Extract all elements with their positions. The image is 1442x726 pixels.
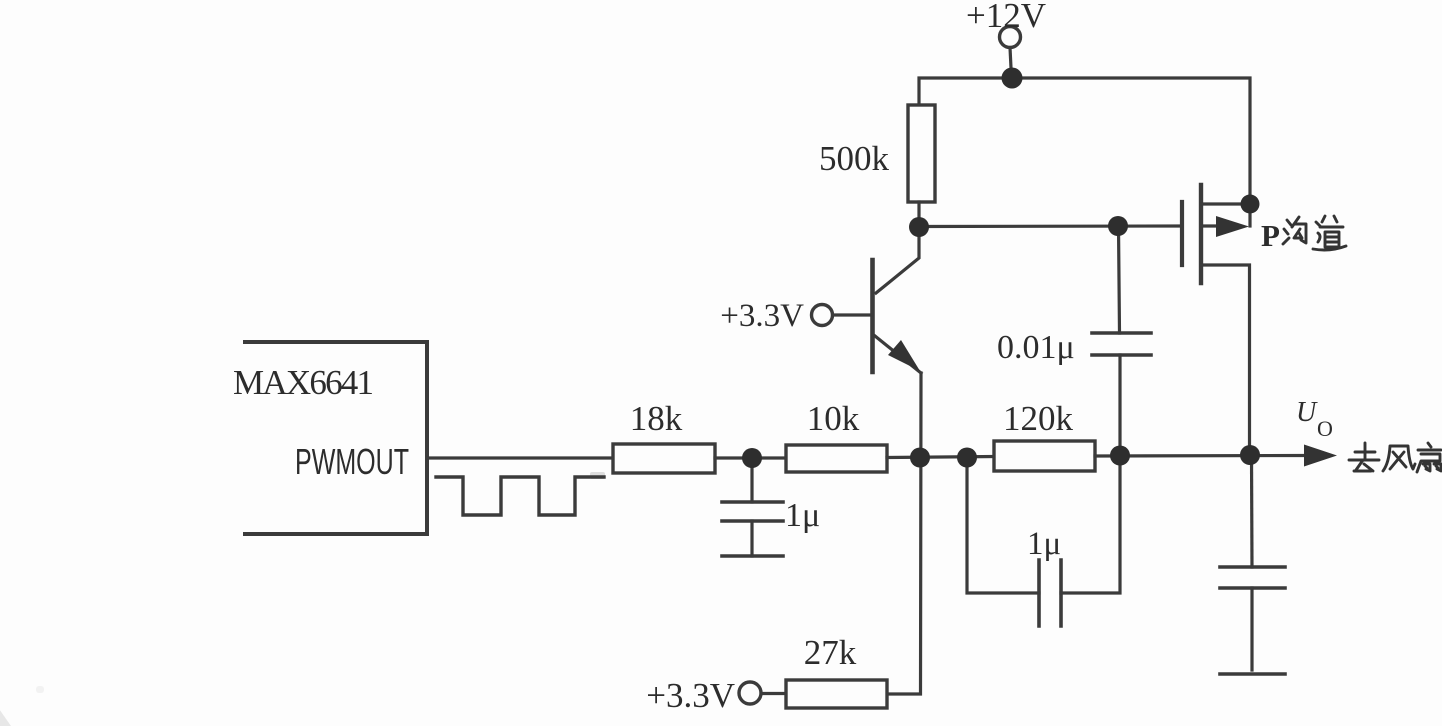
wire node J4 up to C 0.01u — [1118, 355, 1121, 455]
IC U1 MAX6641 box — [245, 342, 427, 534]
MOSFET body stub with arrow — [1201, 224, 1219, 227]
resistor R 27k — [786, 680, 887, 708]
MOSFET body arrow — [1216, 216, 1249, 237]
wire C 0.01u to gate node J7 — [1119, 226, 1120, 333]
MOSFET source-body tie — [1248, 204, 1251, 226]
capacitor C out lower lead — [1250, 588, 1253, 670]
power +12V terminal circle — [1000, 27, 1021, 48]
svg-text:U: U — [1296, 397, 1318, 428]
svg-text:P: P — [1261, 218, 1280, 253]
junction node J7 — [1108, 216, 1128, 236]
capacitor C 1u (left) top plate — [722, 500, 783, 504]
svg-text:+3.3V: +3.3V — [646, 676, 735, 715]
wire 27k to +3.3V terminal — [762, 692, 786, 695]
terminal +3.3V bottom circle — [739, 682, 761, 704]
resistor R 18k — [613, 444, 715, 473]
svg-text:10k: 10k — [807, 399, 860, 438]
MOSFET gate bar — [1180, 202, 1184, 265]
svg-text:18k: 18k — [630, 399, 683, 438]
svg-text:0.01μ: 0.01μ — [997, 329, 1075, 366]
svg-text:500k: 500k — [819, 139, 890, 178]
faint print smudge left of waveform end — [590, 472, 605, 479]
svg-text:+12V: +12V — [966, 0, 1046, 35]
hanzi 扇 — [1418, 443, 1441, 450]
junction node J8 +12V rail — [1002, 68, 1023, 89]
svg-text:PWMOUT: PWMOUT — [295, 441, 409, 482]
svg-text:1μ: 1μ — [1027, 526, 1061, 562]
ground bar below C out — [1220, 672, 1285, 676]
junction node J3 — [957, 448, 977, 468]
PWM waveform symbol — [436, 477, 604, 515]
wire +12V top rail — [919, 78, 1250, 204]
transistor Q1 emitter arrow — [888, 340, 920, 371]
wire gate net J6 to MOSFET gate — [919, 224, 1182, 228]
wire 120k to output arrow — [1095, 454, 1305, 458]
MOSFET source stub — [1201, 202, 1250, 205]
transistor Q1 emitter lead — [875, 336, 921, 373]
hanzi 风 — [1383, 446, 1415, 471]
wire PWMOUT pin to R 18k — [427, 456, 613, 459]
svg-text:120k: 120k — [1003, 399, 1074, 438]
hanzi 道 — [1322, 216, 1337, 222]
wire node J3 to C 1u (right) — [967, 458, 1039, 593]
hanzi 去 — [1349, 443, 1379, 460]
faint corner smudge bottom-left — [0, 706, 11, 726]
capacitor C 1u (left) lower lead — [750, 521, 753, 556]
hanzi 沟 — [1283, 220, 1291, 244]
output arrow to fan — [1304, 445, 1337, 467]
capacitor C 1u (left) bottom plate — [722, 519, 783, 523]
svg-text:1μ: 1μ — [785, 497, 820, 534]
wire 500k bottom to node J6 — [917, 202, 920, 227]
capacitor C 0.01u top plate — [1092, 331, 1151, 335]
resistor R 120k — [994, 441, 1095, 471]
transistor Q1 base lead — [833, 313, 871, 316]
ground bar below C 1u (left) — [722, 554, 783, 558]
wire node J2 vertical (emitter to 27k) — [887, 373, 921, 694]
junction node J1 — [742, 448, 762, 468]
transistor Q1 collector lead — [876, 230, 919, 293]
capacitor C out bottom plate — [1220, 586, 1285, 590]
resistor R 500k — [908, 105, 935, 202]
svg-text:+3.3V: +3.3V — [720, 298, 804, 334]
wire 18k to 10k — [715, 456, 786, 459]
wire C 1u (right) to node J4 — [1061, 455, 1120, 593]
junction node J6 — [909, 217, 929, 237]
junction node J2 — [910, 448, 930, 468]
junction node J9 MOSFET source — [1241, 195, 1260, 214]
resistor R 10k — [786, 445, 887, 472]
terminal +3.3V base circle — [812, 305, 833, 326]
junction node J4 — [1110, 446, 1130, 466]
capacitor C 1u (left) lead — [750, 458, 753, 502]
wire output node J5 down to cap — [1250, 455, 1254, 567]
svg-text:MAX6641: MAX6641 — [233, 363, 374, 402]
capacitor C 0.01u bottom plate — [1092, 353, 1151, 357]
wire 10k to 120k — [887, 457, 994, 458]
MOSFET drain stub — [1201, 265, 1250, 455]
junction node J5 — [1240, 445, 1260, 465]
svg-text:27k: 27k — [804, 633, 857, 672]
transistor Q1 base bar — [870, 260, 875, 372]
capacitor C 1u (right) right plate — [1059, 560, 1063, 626]
wire +12V terminal to rail — [1010, 48, 1012, 79]
MOSFET channel bar — [1199, 185, 1203, 283]
svg-text:O: O — [1317, 416, 1333, 441]
capacitor C out top plate — [1220, 565, 1285, 569]
capacitor C 1u (right) left plate — [1037, 560, 1041, 626]
